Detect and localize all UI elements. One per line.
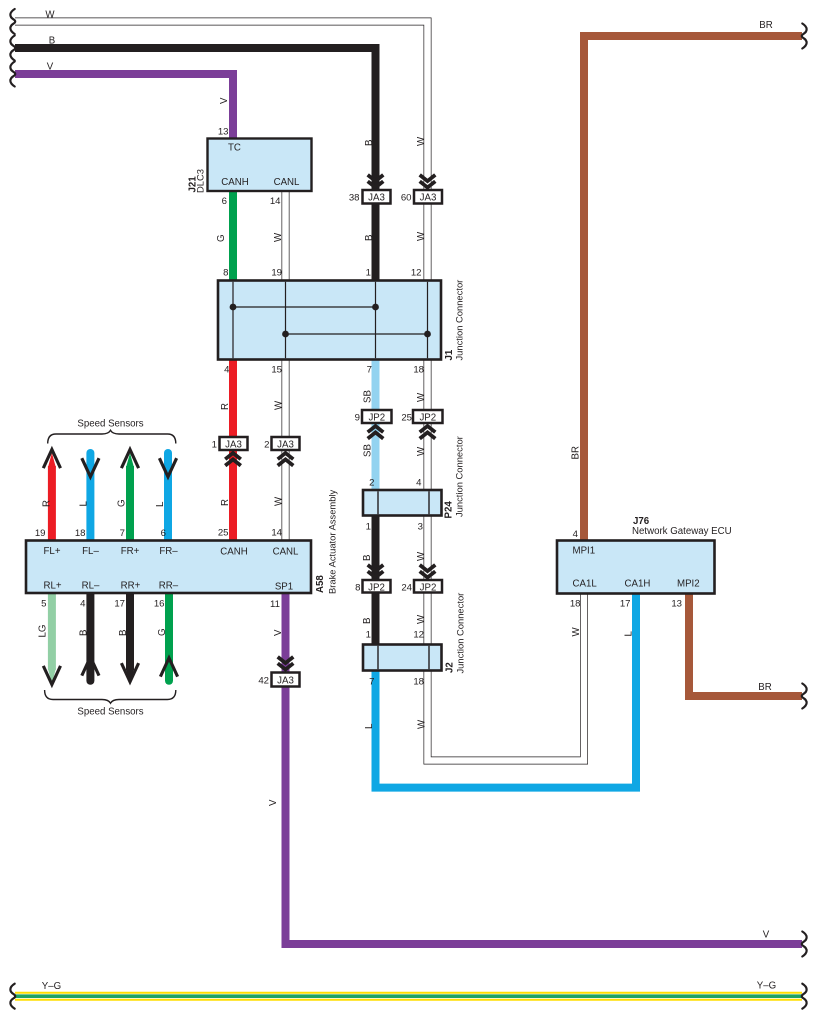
svg-text:CA1H: CA1H — [625, 579, 651, 590]
connector JP2 pin 8 — [363, 580, 391, 593]
svg-text:JA3: JA3 — [277, 676, 294, 687]
svg-text:25: 25 — [401, 413, 412, 424]
wire break W left — [10, 9, 15, 34]
arrow below JP2 25 — [420, 426, 436, 439]
wire W DLC3 CANL pin 14 to J1 pin 19 — [282, 191, 290, 281]
svg-text:14: 14 — [271, 528, 282, 539]
connector JA3 pin 1 — [220, 437, 248, 450]
arrow down FR- — [159, 458, 176, 477]
arrow up FL+ — [43, 450, 60, 469]
J1 internal terminals — [233, 282, 428, 358]
junction dot J1 pin8 — [230, 304, 237, 311]
svg-text:RL+: RL+ — [43, 581, 61, 592]
svg-text:A58: A58 — [315, 575, 326, 593]
svg-text:L: L — [79, 501, 90, 507]
speed sensor wire R (FL+) pin 19 — [48, 466, 56, 541]
svg-text:W: W — [416, 392, 427, 402]
svg-text:W: W — [416, 446, 427, 456]
svg-text:JP2: JP2 — [368, 413, 385, 424]
svg-text:W: W — [416, 231, 427, 241]
svg-text:W: W — [416, 614, 427, 624]
svg-text:G: G — [157, 628, 168, 636]
wire break BR right — [802, 24, 807, 49]
svg-text:MPI1: MPI1 — [573, 546, 596, 557]
wire BR from top right to J76 MPI1 pin 4 — [584, 36, 802, 541]
svg-text:CANL: CANL — [273, 547, 299, 558]
svg-text:CANH: CANH — [221, 177, 248, 188]
J1 bus bar 1 — [233, 306, 376, 308]
wire Y-G bottom — [15, 992, 802, 1001]
wire G DLC3 CANH pin 6 to J1 pin 8 — [229, 191, 237, 281]
arrow below JP2 9 — [368, 426, 384, 439]
svg-text:TC: TC — [228, 143, 241, 154]
svg-text:B: B — [364, 140, 375, 146]
svg-text:2: 2 — [264, 440, 269, 451]
svg-text:RL–: RL– — [82, 581, 100, 592]
svg-text:L: L — [364, 723, 375, 729]
arrow down RR+ — [121, 663, 138, 682]
svg-text:R: R — [220, 403, 231, 410]
arrow below JA3 1 — [225, 453, 241, 466]
svg-text:CA1L: CA1L — [573, 579, 598, 590]
svg-text:18: 18 — [413, 365, 424, 376]
svg-text:V: V — [219, 97, 230, 104]
wire break B left — [10, 36, 15, 61]
svg-text:CANH: CANH — [220, 547, 247, 558]
svg-text:38: 38 — [349, 193, 360, 204]
wire break V left — [10, 62, 15, 87]
svg-text:6: 6 — [222, 196, 227, 207]
svg-text:1: 1 — [366, 268, 371, 279]
wire W J1 pin 18 to P24 pin 4 — [424, 359, 432, 491]
wire SB J1 pin 7 to P24 pin 2 — [372, 359, 380, 491]
connector JP2 pin 25 — [413, 410, 443, 423]
wire W J2 pin 18 to J76 CA1L pin 18 — [428, 594, 585, 761]
svg-text:W: W — [571, 627, 582, 637]
svg-text:1: 1 — [366, 522, 371, 533]
speed sensor wire G (RR-) pin 16 — [165, 592, 173, 681]
svg-text:V: V — [273, 629, 284, 636]
svg-text:JA3: JA3 — [420, 193, 437, 204]
svg-text:L: L — [155, 501, 166, 507]
J1 bus bar 2 — [286, 333, 428, 335]
svg-text:BR: BR — [571, 446, 582, 459]
svg-text:6: 6 — [161, 528, 166, 539]
svg-text:R: R — [42, 500, 53, 507]
svg-text:JP2: JP2 — [419, 413, 436, 424]
svg-text:4: 4 — [80, 599, 86, 610]
wire R J1 pin 4 to A58 CANH pin 25 — [229, 359, 237, 541]
svg-text:B: B — [362, 555, 373, 561]
svg-text:7: 7 — [369, 677, 374, 688]
svg-text:W: W — [417, 719, 428, 729]
wire W from DLC3 top-left to JA3 pin 60 — [15, 22, 428, 282]
junction dot J1 pin12 — [424, 331, 431, 338]
wire BR J76 MPI2 pin 13 to right edge — [689, 593, 802, 696]
speed sensor wire L (FL-) pin 18 — [86, 453, 94, 541]
svg-text:25: 25 — [218, 528, 229, 539]
wire break BR mid right — [802, 684, 807, 709]
svg-text:18: 18 — [570, 599, 581, 610]
svg-text:B: B — [79, 630, 90, 636]
svg-text:B: B — [364, 235, 375, 241]
svg-text:14: 14 — [270, 196, 281, 207]
svg-text:8: 8 — [355, 583, 360, 594]
svg-text:12: 12 — [413, 630, 424, 641]
svg-text:19: 19 — [271, 268, 282, 279]
speed sensors brace top — [48, 430, 176, 443]
wire break YG left — [10, 984, 15, 1009]
junction dot J1 pin19 — [282, 331, 289, 338]
wire L J2 pin 7 to J76 CA1H pin 17 — [376, 594, 637, 788]
connector JA3 pin 2 — [272, 437, 300, 450]
arrow into JA3 42 — [278, 657, 294, 670]
svg-text:19: 19 — [35, 528, 46, 539]
svg-text:FL+: FL+ — [44, 546, 61, 557]
svg-text:LG: LG — [38, 625, 49, 638]
svg-text:MPI2: MPI2 — [677, 579, 700, 590]
svg-text:FL–: FL– — [82, 546, 99, 557]
svg-text:B: B — [49, 36, 55, 47]
svg-text:JA3: JA3 — [225, 440, 242, 451]
svg-text:JP2: JP2 — [368, 583, 385, 594]
svg-text:17: 17 — [620, 599, 631, 610]
svg-text:JA3: JA3 — [277, 440, 294, 451]
svg-text:Y–G: Y–G — [42, 981, 61, 992]
svg-text:13: 13 — [671, 599, 682, 610]
speed sensor wire L (FR-) pin 6 — [164, 453, 172, 541]
arrow down FL- — [82, 458, 99, 477]
wire B from left to JA3 pin 38 — [15, 48, 376, 281]
svg-text:BR: BR — [758, 682, 771, 693]
svg-text:1: 1 — [366, 630, 371, 641]
svg-text:5: 5 — [41, 599, 46, 610]
svg-text:4: 4 — [416, 478, 422, 489]
svg-text:JP2: JP2 — [420, 583, 437, 594]
svg-text:9: 9 — [355, 413, 360, 424]
svg-text:FR+: FR+ — [121, 546, 140, 557]
svg-text:Brake Actuator Assembly: Brake Actuator Assembly — [327, 489, 338, 594]
svg-text:Speed Sensors: Speed Sensors — [77, 707, 143, 718]
junction connector J1 — [218, 281, 441, 360]
svg-text:3: 3 — [418, 522, 423, 533]
connector J21 DLC3 (TC box) — [208, 139, 312, 192]
svg-text:BR: BR — [759, 20, 772, 31]
svg-text:15: 15 — [271, 365, 282, 376]
svg-text:RR+: RR+ — [121, 581, 141, 592]
arrow into JA3 60 — [420, 175, 436, 188]
svg-text:R: R — [220, 499, 231, 506]
svg-text:8: 8 — [223, 268, 228, 279]
svg-text:2: 2 — [369, 478, 374, 489]
svg-text:V: V — [268, 799, 279, 806]
junction dot J1 pin1 — [372, 304, 379, 311]
svg-text:Junction Connector: Junction Connector — [455, 593, 466, 674]
svg-text:7: 7 — [120, 528, 125, 539]
svg-text:Y–G: Y–G — [757, 981, 776, 992]
arrow up RL- — [82, 657, 99, 676]
wire W J1 pin 15 to A58 CANL pin 14 — [282, 359, 290, 541]
svg-text:G: G — [216, 234, 227, 242]
arrow down RL+ — [43, 666, 60, 685]
connector JA3 pin 60 — [414, 190, 442, 204]
wire W P24 pin 3 to J2 pin 12 — [424, 515, 432, 645]
speed sensor wire G (FR+) pin 7 — [126, 466, 134, 541]
svg-text:4: 4 — [224, 365, 230, 376]
svg-text:W: W — [416, 136, 427, 146]
svg-text:42: 42 — [258, 676, 269, 687]
arrow into JP2 24 — [420, 565, 436, 578]
ECU A58 Brake Actuator Assembly — [26, 541, 311, 594]
connector JP2 pin 24 — [414, 580, 442, 593]
arrow below JA3 2 — [278, 453, 294, 466]
svg-text:W: W — [416, 551, 427, 561]
svg-text:1: 1 — [212, 440, 217, 451]
svg-text:Junction Connector: Junction Connector — [454, 280, 465, 361]
svg-text:Network Gateway ECU: Network Gateway ECU — [632, 526, 732, 537]
svg-text:16: 16 — [154, 599, 165, 610]
svg-text:Junction Connector: Junction Connector — [454, 436, 465, 517]
svg-text:12: 12 — [411, 268, 422, 279]
svg-text:18: 18 — [75, 528, 86, 539]
svg-text:V: V — [763, 930, 770, 941]
connector JA3 pin 42 — [272, 673, 300, 687]
wire V from left to DLC3 pin 13 — [15, 74, 233, 139]
svg-text:DLC3: DLC3 — [195, 169, 206, 193]
svg-text:RR–: RR– — [159, 581, 179, 592]
arrow into JA3 38 — [368, 175, 384, 188]
svg-text:V: V — [47, 62, 54, 73]
svg-text:11: 11 — [270, 599, 280, 610]
svg-text:W: W — [273, 232, 284, 242]
svg-text:13: 13 — [218, 127, 229, 138]
speed sensor wire B (RR+) pin 17 — [126, 592, 134, 670]
svg-text:SP1: SP1 — [275, 582, 293, 593]
svg-text:60: 60 — [401, 193, 412, 204]
svg-text:4: 4 — [573, 529, 579, 540]
P24 internal lines — [377, 491, 379, 514]
svg-text:B: B — [118, 630, 129, 636]
svg-text:SB: SB — [363, 390, 374, 403]
wire B P24 pin 1 to J2 pin 1 — [372, 515, 380, 645]
svg-text:JA3: JA3 — [368, 193, 385, 204]
wire V A58 SP1 pin 11 through JA3 pin 42 to right edge — [286, 592, 803, 944]
wire break YG right — [802, 984, 807, 1009]
svg-text:SB: SB — [363, 444, 374, 457]
junction connector P24 — [363, 490, 442, 516]
svg-text:18: 18 — [413, 677, 424, 688]
svg-text:CANL: CANL — [274, 177, 300, 188]
wire break V right — [802, 932, 807, 957]
arrow into JP2 8 — [368, 565, 384, 578]
arrow up RR- — [160, 658, 177, 677]
svg-text:Speed Sensors: Speed Sensors — [77, 419, 143, 430]
svg-text:24: 24 — [401, 583, 412, 594]
J2 internal lines — [377, 646, 379, 669]
connector JP2 pin 9 — [362, 410, 392, 423]
svg-text:W: W — [274, 400, 285, 410]
svg-text:17: 17 — [114, 599, 125, 610]
svg-text:L: L — [624, 631, 635, 637]
svg-text:W: W — [274, 496, 285, 506]
junction connector J2 — [363, 645, 442, 671]
svg-text:W: W — [45, 10, 55, 21]
ECU J76 Network Gateway — [557, 541, 715, 594]
speed sensors brace bottom — [45, 690, 176, 703]
speed sensor wire B (RL-) pin 4 — [86, 592, 94, 681]
svg-text:B: B — [362, 618, 373, 624]
svg-text:G: G — [117, 499, 128, 507]
svg-text:FR–: FR– — [159, 546, 178, 557]
connector JA3 pin 38 — [363, 190, 391, 204]
svg-text:7: 7 — [367, 365, 372, 376]
speed sensor wire LG (RL+) pin 5 — [48, 592, 56, 670]
arrow up FR+ — [121, 450, 138, 469]
